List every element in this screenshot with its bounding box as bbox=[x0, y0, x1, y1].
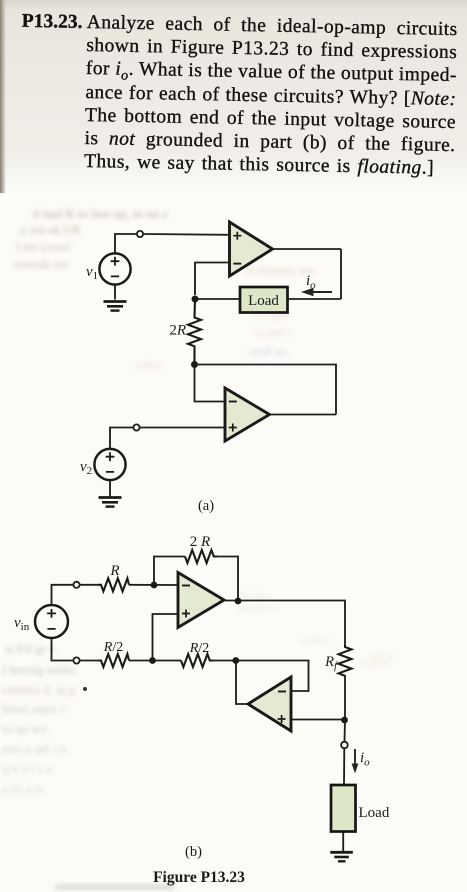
wire: U4 output feedback up to node B bbox=[236, 661, 248, 705]
svg-text:Rf: Rf bbox=[324, 654, 339, 672]
node B junction dot bbox=[232, 657, 239, 664]
wire: R to node C bbox=[129, 584, 178, 586]
svg-text:(a): (a) bbox=[198, 498, 214, 514]
ground below v2 bbox=[99, 498, 122, 507]
svg-text:2R: 2R bbox=[169, 323, 186, 339]
scanned top text region background bbox=[0, 0, 467, 196]
resistor Rf bbox=[324, 645, 351, 676]
load box (b) bbox=[331, 785, 390, 832]
svg-text:v2: v2 bbox=[80, 459, 92, 477]
current arrow i_o (a) bbox=[301, 273, 332, 296]
svg-text:Load: Load bbox=[359, 805, 390, 821]
svg-text:R/2: R/2 bbox=[103, 640, 123, 655]
resistor 2R (b feedback) bbox=[185, 534, 218, 563]
svg-text:R: R bbox=[109, 563, 119, 579]
wire: v1 bottom to ground bbox=[114, 285, 116, 300]
wire: U3 output rail to right corner bbox=[224, 601, 345, 646]
wire: 2R right to node D bbox=[218, 557, 239, 602]
dark scan gutter on left edge bbox=[0, 0, 6, 193]
svg-text:v1: v1 bbox=[86, 264, 98, 282]
wire: node N2 feedback rail to U2 output corner bbox=[195, 365, 337, 415]
wire: load (b) bottom to ground bbox=[342, 832, 344, 852]
node E junction dot bbox=[341, 717, 348, 724]
wire: v1 top to opamp U1 + input bbox=[115, 234, 137, 254]
ground below v1 bbox=[104, 302, 127, 311]
resistor R bbox=[99, 563, 130, 591]
resistor R/2 #1 bbox=[99, 640, 130, 667]
svg-text:R/2: R/2 bbox=[189, 641, 209, 656]
node: open terminal top of vin bbox=[73, 582, 79, 588]
wire: R/2 #2 to node B bbox=[213, 660, 236, 662]
wire: Load-a right to corner bbox=[288, 298, 342, 300]
wire: Rf bottom to node E to open terminal bbox=[344, 676, 347, 741]
svg-text:io: io bbox=[306, 273, 316, 292]
op-amp U2 bbox=[225, 388, 270, 441]
svg-text:Figure P13.23: Figure P13.23 bbox=[153, 869, 245, 886]
wire: opamp U1 - input to node N1 bbox=[195, 263, 230, 296]
wire: U4 + input right to node E bbox=[291, 719, 345, 721]
wire: U3 + input down to node A bbox=[153, 614, 179, 661]
wire: U2 output to corner bbox=[270, 414, 337, 416]
svg-text:(b): (b) bbox=[185, 844, 202, 860]
voltage source vin bbox=[14, 605, 68, 638]
wire: node C up to 2R feedback bbox=[154, 557, 185, 586]
node N2 junction dot bbox=[191, 361, 198, 368]
resistor 2R bbox=[169, 299, 201, 365]
node: open terminal circle before U2 + input bbox=[133, 424, 139, 430]
voltage source v2 bbox=[80, 449, 126, 480]
node A junction dot bbox=[149, 657, 156, 664]
ground below load (b) bbox=[330, 852, 353, 861]
faint bleed-through ghost texts from reverse page bbox=[33, 206, 258, 222]
wire: vin bottom to R/2 bbox=[52, 638, 74, 661]
wire: node N2 down to U2 - input bbox=[195, 365, 226, 402]
resistor R/2 #2 bbox=[181, 641, 213, 667]
op-amp U4 (points left) bbox=[248, 677, 291, 731]
wire: right vertical from U1 output corner down bbox=[340, 249, 342, 299]
node: open terminal above load (b) bbox=[341, 742, 348, 749]
wire: v2 bottom to ground bbox=[109, 480, 111, 497]
wire: vin top to R bbox=[52, 585, 74, 606]
voltage source v1 bbox=[86, 253, 131, 284]
current arrow i_o (b) bbox=[352, 749, 371, 774]
svg-text:io: io bbox=[360, 750, 370, 769]
wire: R/2 #1 to node A bbox=[129, 660, 181, 662]
load box (a) bbox=[240, 287, 288, 313]
svg-text:Load: Load bbox=[248, 293, 279, 309]
wire: open terminal down to load (b) bbox=[343, 749, 345, 785]
svg-text:vin: vin bbox=[14, 615, 30, 633]
small ink speck bbox=[83, 687, 87, 691]
wire: node B to U4 - input bbox=[236, 661, 309, 692]
op-amp U1 bbox=[230, 222, 273, 276]
node: open terminal bottom of vin bbox=[73, 657, 79, 663]
node C junction dot bbox=[151, 582, 158, 589]
wire: U2 + input to open terminal to v2 top bbox=[140, 427, 225, 429]
node N1 junction dot bbox=[192, 296, 199, 303]
svg-text:2 R: 2 R bbox=[190, 534, 210, 550]
problem statement text bbox=[84, 11, 458, 180]
wire: U1 output to corner bbox=[273, 248, 342, 250]
op-amp U3 bbox=[178, 573, 224, 628]
node: open terminal circle after v1 bbox=[137, 231, 143, 237]
wire: node N1 to Load-a left bbox=[195, 298, 240, 300]
node D junction dot bbox=[235, 598, 242, 605]
